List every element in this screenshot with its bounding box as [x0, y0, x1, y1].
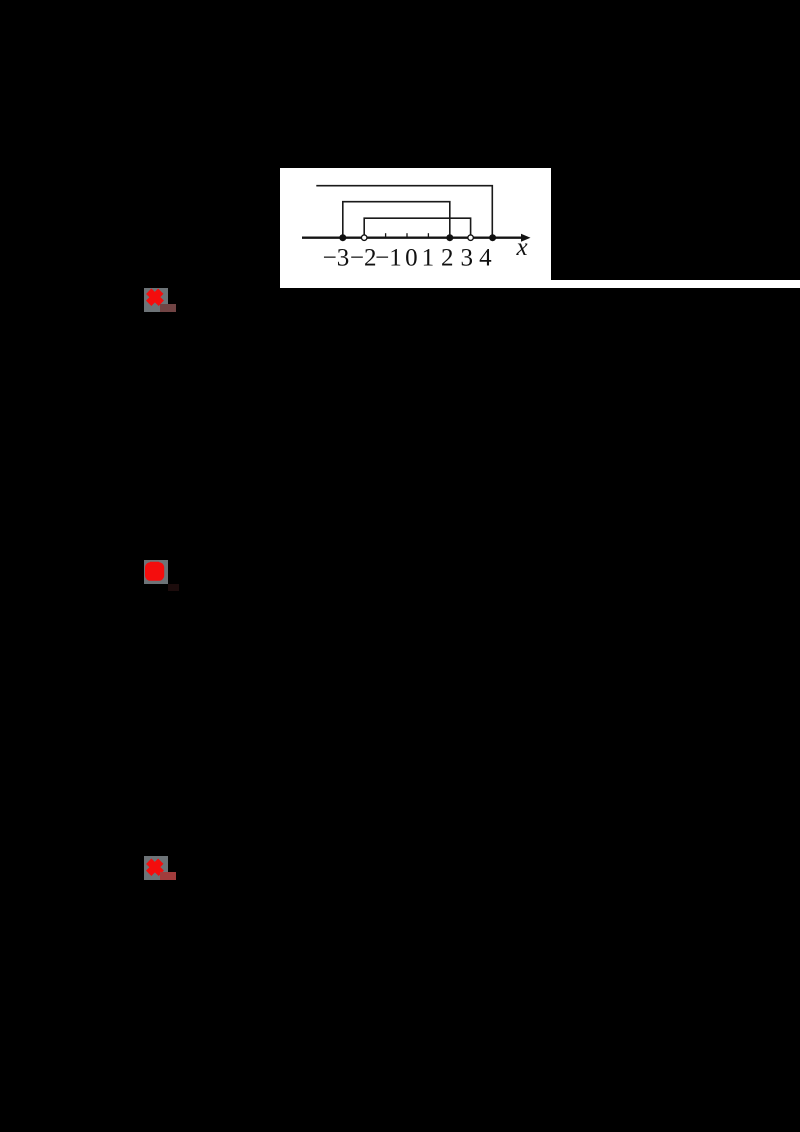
- icon 3: broken formula placeholder: [144, 856, 176, 880]
- icon 1: broken formula placeholder: [144, 288, 176, 312]
- tick 1: [427, 233, 429, 238]
- tick -1: [385, 233, 387, 238]
- filled dot 2: [446, 234, 453, 241]
- number-line axis: [302, 236, 524, 238]
- open dot -2: [361, 235, 367, 241]
- white text-line band right of box: [551, 280, 800, 288]
- svg-text:x: x: [515, 234, 527, 261]
- svg-text:−1: −1: [375, 245, 402, 272]
- inner bracket: -2 to 3: [364, 218, 470, 238]
- svg-text:0: 0: [405, 245, 418, 272]
- svg-text:2: 2: [441, 245, 454, 272]
- svg-text:1: 1: [422, 245, 435, 272]
- axis arrowhead: [521, 234, 531, 242]
- svg-text:−2: −2: [350, 245, 377, 272]
- icon 2: broken formula placeholder: [144, 560, 179, 591]
- top bracket: segment ending at 4: [316, 186, 492, 238]
- number labels: [323, 234, 528, 272]
- filled dot 4: [489, 234, 496, 241]
- svg-text:4: 4: [479, 245, 492, 272]
- svg-text:3: 3: [460, 245, 473, 272]
- middle bracket: -3 to 2: [343, 202, 450, 238]
- white diagram box: [280, 168, 551, 288]
- filled dot -3: [339, 234, 346, 241]
- svg-text:−3: −3: [323, 245, 350, 272]
- tick 0: [406, 233, 408, 238]
- open dot 3: [468, 235, 474, 241]
